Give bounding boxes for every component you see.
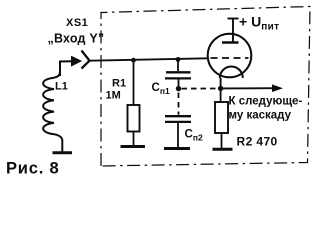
wire grid line [90,58,208,60]
svg-text:R1: R1 [112,78,126,90]
ground (R2) [213,148,233,151]
svg-text:Рис. 8: Рис. 8 [6,160,59,178]
svg-text:1М: 1М [106,90,121,102]
node divider [176,86,181,91]
svg-text:XS1: XS1 [66,17,88,29]
node cathode junction [218,86,223,91]
wire input riser [60,61,72,76]
tube grid [211,57,249,59]
svg-text:„Вход Y”: „Вход Y” [48,32,105,46]
connector XS1 plug arrow [72,57,82,66]
capacitor Cп1 [177,59,179,71]
resistor R2 [220,88,222,102]
tube cathode [220,67,243,79]
svg-text:R2 470: R2 470 [237,135,278,149]
ground (L1) [53,151,73,154]
dashed enclosure box [101,7,310,167]
tube envelope [208,34,252,78]
node R1 junction [131,58,136,63]
ground (Сп2) [164,147,190,150]
dashed wire node to cathode [182,88,218,90]
svg-text:Сп2: Сп2 [185,129,203,143]
ground (R1) [121,145,146,148]
tube anode [232,19,234,42]
connector XS1 socket chevron [82,51,90,69]
svg-text:му каскаду: му каскаду [229,110,292,122]
capacitor Cп2 [165,115,191,117]
dashed wire node to Cп2 [178,93,180,115]
svg-text:К следующе-: К следующе- [229,96,303,108]
svg-text:L1: L1 [55,81,68,93]
anode terminal bar [228,18,239,20]
resistor R1 [133,60,135,105]
node Cп1 junction [176,57,181,62]
svg-text:+ Uпит: + Uпит [239,14,279,33]
svg-text:Сп1: Сп1 [152,82,170,96]
wire to next stage [221,87,273,89]
inductor L1 [43,62,62,152]
